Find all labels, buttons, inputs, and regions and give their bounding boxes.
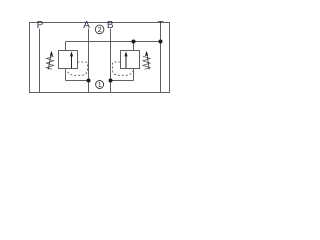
wire: V1 outlet to A line xyxy=(66,80,89,82)
valve V2 flow arrow xyxy=(124,51,127,68)
junction dot: drain at V2 drop xyxy=(132,40,136,44)
valve V2 spring xyxy=(143,56,150,69)
junction dot: drain at T line xyxy=(159,40,163,44)
valve V1 adjustment arrow xyxy=(48,51,53,70)
junction dot: V2 outlet on B line xyxy=(109,79,113,83)
wire: V2 outlet to B line xyxy=(111,80,134,82)
valve V1 body xyxy=(59,51,78,69)
svg-text:A: A xyxy=(83,20,90,31)
wire: drain/pilot header to T xyxy=(66,41,161,43)
valve V1 pilot line (dashed) xyxy=(67,62,87,75)
valve V2 body xyxy=(121,51,140,69)
svg-text:1: 1 xyxy=(98,82,102,89)
wire: B line top-to-bottom xyxy=(110,29,112,93)
wire: V2 outlet down xyxy=(133,69,135,81)
svg-text:P: P xyxy=(37,20,44,31)
wire: A line top-to-bottom xyxy=(88,29,90,93)
wire: drop into valve V1 top xyxy=(65,42,67,51)
valve V2 adjustment arrow xyxy=(145,51,149,70)
node 2 (gauge point, circled) xyxy=(95,25,104,34)
wire: P line top-to-bottom xyxy=(39,29,41,93)
wire: T line top-to-bottom xyxy=(160,23,162,93)
wire: drop into valve V2 top xyxy=(133,42,135,51)
svg-text:2: 2 xyxy=(98,27,102,34)
valve V1 flow arrow xyxy=(70,51,73,68)
plate outline xyxy=(30,23,170,93)
node 1 (gauge point, circled) xyxy=(96,81,104,90)
valve V2 pilot line (dashed) xyxy=(113,62,133,75)
valve V1 spring xyxy=(47,56,54,69)
wire: V1 outlet down xyxy=(65,69,67,81)
junction dot: V1 outlet on A line xyxy=(87,79,91,83)
